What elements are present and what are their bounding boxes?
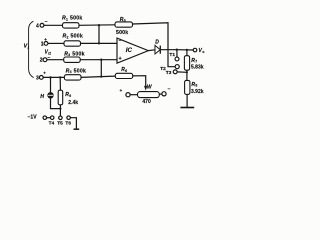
resistor R2 500k: [64, 41, 81, 46]
svg-text:−: −: [119, 38, 122, 44]
-1V terminal: [43, 116, 47, 120]
wiper arrow: [144, 86, 147, 91]
terminal T3: [173, 70, 177, 74]
svg-text:1: 1: [41, 41, 44, 47]
svg-text:o: o: [202, 50, 204, 54]
junction R9 tap: [59, 76, 61, 78]
svg-text:6: 6: [125, 69, 127, 73]
svg-text:T6: T6: [65, 121, 71, 127]
svg-text:3: 3: [68, 53, 70, 57]
input group bracket V_i: [29, 21, 34, 77]
svg-text:500k: 500k: [72, 51, 85, 57]
svg-text:D: D: [155, 40, 159, 46]
svg-text:+: +: [120, 88, 123, 93]
svg-text:500k: 500k: [70, 16, 83, 22]
node B junction: [98, 42, 100, 44]
wire -1V to T4: [47, 117, 51, 119]
svg-text:−: −: [48, 55, 51, 61]
wire R9 bottom to T5: [59, 105, 61, 116]
svg-text:5.83k: 5.83k: [191, 65, 204, 71]
resistor R9 drop wire: [59, 77, 61, 90]
terminal 4: [40, 23, 44, 27]
wire T6 to ground: [70, 118, 76, 129]
junction H tap: [49, 76, 51, 78]
svg-text:3: 3: [36, 75, 39, 81]
resistor R7 5.83k: [184, 56, 189, 70]
svg-text:5: 5: [124, 19, 126, 23]
feedback wire to T2: [133, 23, 176, 67]
svg-text:8: 8: [195, 84, 197, 88]
T1 node junction: [176, 49, 178, 51]
output terminal Vo: [193, 48, 197, 52]
wire row A: terminal 4 to R1: [44, 24, 63, 26]
wire to potentiometer: [130, 94, 137, 96]
svg-text:4: 4: [36, 23, 39, 29]
wire row B: terminal 1 to R2: [48, 42, 64, 44]
svg-text:−: −: [168, 87, 171, 93]
svg-text:−: −: [45, 19, 48, 25]
wire T3 to divider: [177, 71, 187, 73]
svg-text:2.4k: 2.4k: [68, 100, 78, 106]
wire row D: terminal 3 to R4: [43, 76, 64, 78]
terminal 3: [39, 76, 43, 80]
node C junction: [100, 59, 102, 61]
wire R6 to wiper corner: [133, 76, 146, 87]
junction H/R9: [59, 108, 61, 110]
node A junction: [98, 24, 100, 26]
diode D: [155, 45, 160, 54]
node D junction: [100, 75, 102, 77]
op-amp U1 triangle: [117, 38, 148, 63]
wire to R7: [186, 50, 188, 56]
svg-text:T1: T1: [169, 52, 175, 58]
svg-text:500k: 500k: [116, 30, 128, 36]
svg-text:470: 470: [142, 99, 151, 105]
svg-text:T4: T4: [49, 121, 55, 127]
wire R8 to ground: [186, 94, 188, 107]
svg-text:+: +: [119, 56, 122, 62]
galvanometer H drop wire: [50, 77, 52, 92]
terminal 1: [44, 42, 48, 46]
svg-text:−1V: −1V: [28, 115, 38, 121]
svg-text:500k: 500k: [71, 34, 84, 40]
resistor R3 500k: [64, 57, 80, 62]
potentiometer left terminal: [126, 93, 130, 97]
wire to right terminal: [159, 93, 162, 95]
feedback resistor R5 500k: [115, 22, 133, 27]
svg-text:3.92k: 3.92k: [191, 89, 204, 95]
terminal T1: [175, 57, 179, 61]
wire row C: terminal 2 to R3: [47, 59, 64, 61]
wire node C down to node D: [100, 60, 102, 77]
svg-text:+: +: [44, 37, 47, 42]
R7 node junction: [186, 49, 188, 51]
resistor R1 500k: [63, 23, 80, 28]
terminal T2: [175, 65, 179, 69]
svg-text:2: 2: [40, 58, 43, 64]
wire H bottom: [51, 98, 61, 109]
wire R4 to node D: [81, 76, 115, 77]
potentiometer 470 body: [138, 92, 160, 98]
resistor R4 500k: [64, 75, 81, 80]
potentiometer right terminal: [162, 92, 166, 96]
svg-text:4: 4: [70, 70, 72, 74]
resistor R6: [115, 73, 132, 78]
terminal 2: [43, 58, 47, 62]
svg-text:+: +: [43, 71, 46, 76]
svg-text:500k: 500k: [74, 68, 87, 74]
svg-text:9: 9: [69, 94, 71, 98]
wire R1 to node A: [79, 24, 115, 27]
resistor R8 3.92k: [185, 80, 190, 94]
wire node A down to inverting node: [98, 25, 100, 43]
svg-text:T3: T3: [166, 70, 172, 76]
svg-text:1: 1: [66, 17, 68, 21]
wire R3 to op-amp non-inverting input: [80, 59, 117, 61]
T1 drop wire: [176, 50, 178, 57]
resistor R9 2.4k: [58, 90, 63, 105]
terminal T5: [59, 116, 63, 120]
op-amp output wire: [148, 49, 155, 52]
wire R7 to R8: [186, 70, 188, 80]
divider junction: [186, 71, 188, 73]
galvanometer H: [48, 93, 53, 98]
wire diode to T1 node: [160, 49, 177, 51]
terminal T4: [50, 116, 54, 120]
wire to R7 node: [177, 49, 193, 51]
svg-text:7: 7: [195, 60, 197, 64]
wire R2 to op-amp inverting input: [81, 42, 118, 44]
terminal T6: [67, 116, 71, 120]
svg-text:H: H: [40, 94, 44, 100]
ground (bottom right): [180, 107, 194, 109]
svg-text:IC: IC: [126, 47, 133, 54]
svg-text:T5: T5: [57, 121, 63, 127]
ground (bottom left): [74, 128, 80, 130]
svg-text:2: 2: [67, 35, 69, 39]
